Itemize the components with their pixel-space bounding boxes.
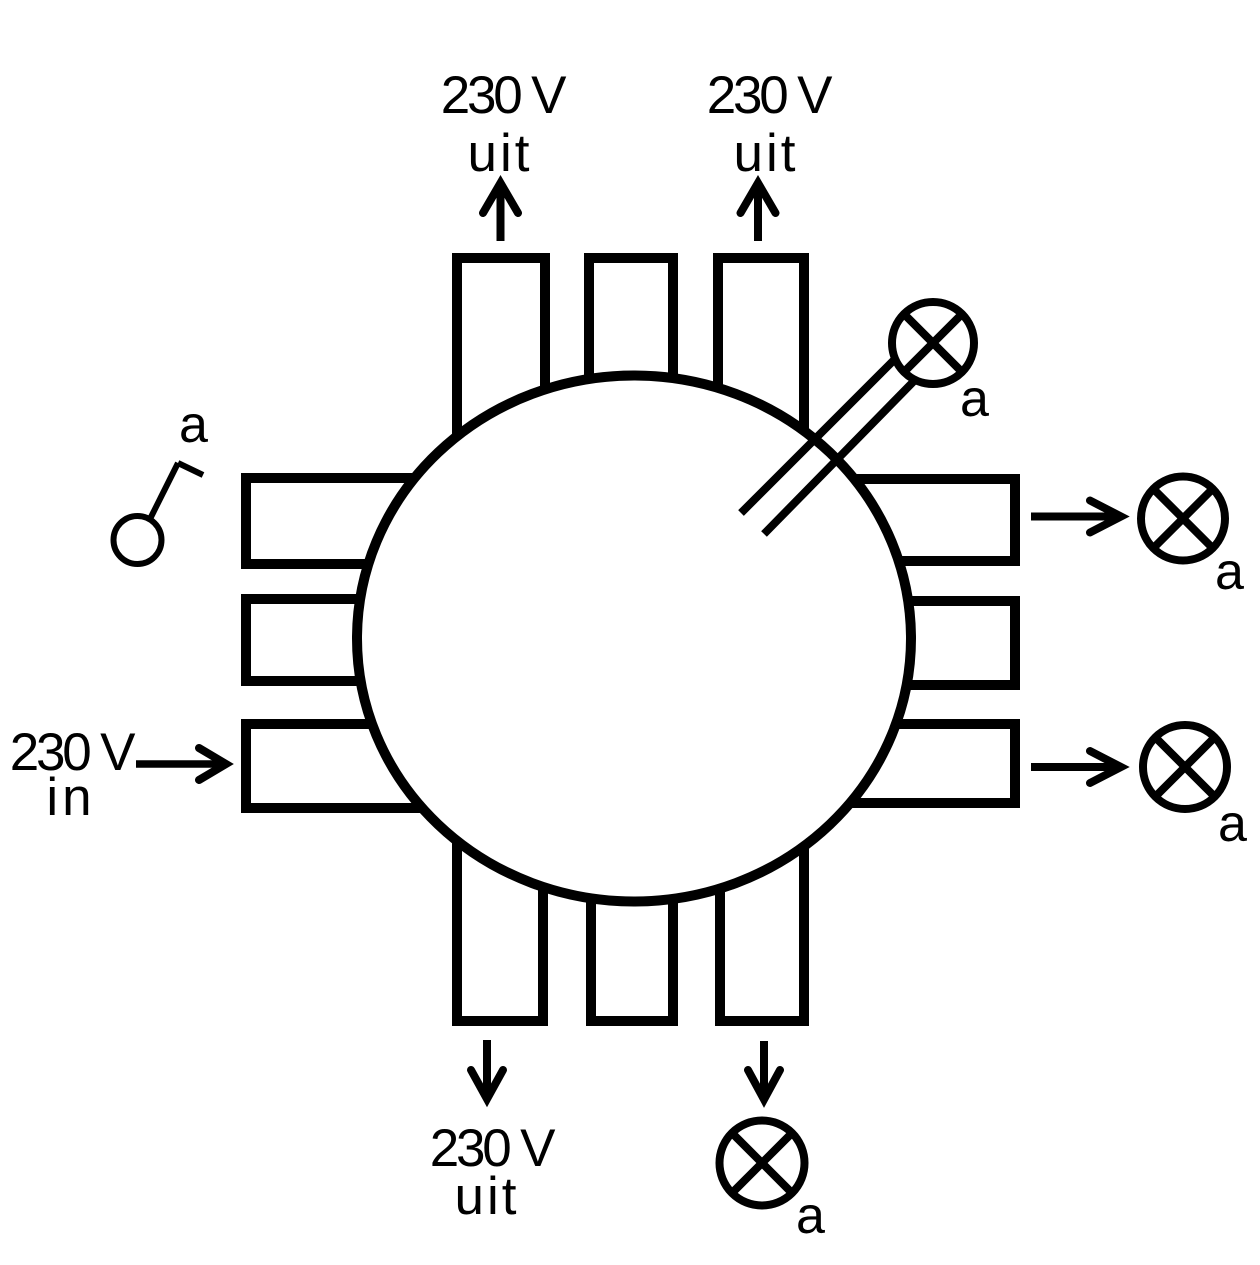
- svg-text:uit: uit: [468, 124, 533, 183]
- svg-text:uit: uit: [455, 1167, 520, 1226]
- lamp L3 (right lower): [1143, 725, 1227, 809]
- terminal box left-3: [246, 724, 516, 808]
- svg-text:a: a: [960, 370, 989, 428]
- junction box circle: [357, 376, 911, 902]
- svg-text:uit: uit: [734, 124, 799, 183]
- arrow 230V uit (bottom-left): [471, 1040, 503, 1099]
- svg-text:a: a: [1218, 795, 1247, 853]
- wire to ceiling lamp (double line): [741, 359, 915, 534]
- arrow 230V in (left): [136, 748, 226, 780]
- svg-text:in: in: [46, 768, 95, 827]
- terminal box bottom-middle: [591, 750, 673, 1021]
- arrow to lamp L4 (bottom): [748, 1041, 780, 1100]
- svg-text:230 V: 230 V: [441, 66, 567, 125]
- switch a symbol: [114, 463, 204, 564]
- lamp L1 (on wire): [892, 302, 974, 384]
- terminal box top-left: [457, 258, 545, 520]
- terminal box top-middle: [589, 258, 673, 520]
- terminal box left-1: [246, 478, 516, 564]
- svg-text:a: a: [796, 1187, 825, 1245]
- svg-text:230 V: 230 V: [707, 66, 833, 125]
- svg-text:a: a: [1215, 543, 1244, 601]
- terminal box bottom-left: [457, 750, 543, 1021]
- arrow 230V uit top-left: [483, 183, 518, 241]
- arrow to lamp L2 (right upper): [1031, 501, 1121, 533]
- terminal box right-2: [750, 601, 1015, 685]
- terminal box right-1: [750, 479, 1015, 561]
- arrow to lamp L3 (right lower): [1031, 751, 1121, 783]
- terminal box top-right: [718, 258, 804, 520]
- lamp L2 (right upper): [1141, 477, 1225, 561]
- terminal box bottom-right: [720, 750, 804, 1021]
- svg-text:a: a: [179, 396, 208, 454]
- terminal box right-3: [750, 724, 1015, 803]
- terminal box left-2: [246, 599, 516, 681]
- lamp L4 (bottom): [720, 1121, 805, 1206]
- arrow 230V uit top-right: [741, 183, 776, 241]
